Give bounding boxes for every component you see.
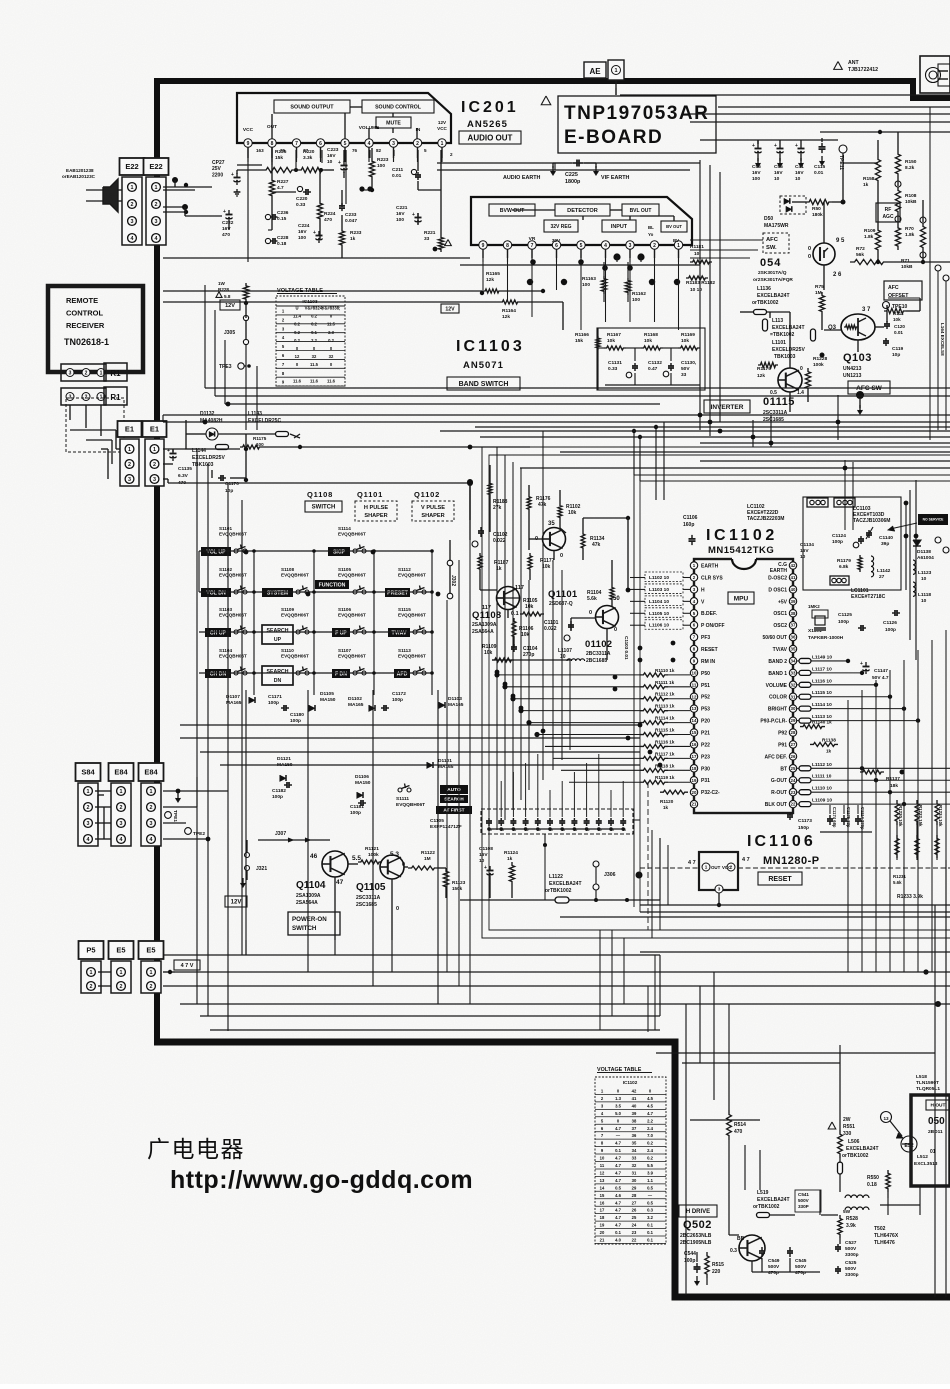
vertical bundle left of IC1102: [496, 447, 498, 830]
R1164 wires: [163, 290, 483, 292]
cap bank: [481, 809, 633, 834]
Q1104: [322, 851, 348, 877]
D50 diodes: [780, 196, 806, 214]
H OUT box: [911, 1095, 950, 1186]
R158: [875, 155, 880, 185]
R233: [339, 228, 344, 248]
Q1105: [380, 855, 404, 879]
R1140: [800, 725, 825, 729]
INVERTER box: [704, 400, 750, 413]
connector R1 row 2: [61, 388, 106, 405]
caps C1174 C1175 C1114: [829, 815, 831, 819]
input box: [602, 220, 636, 232]
J302b: [447, 560, 453, 566]
Q1115: [778, 368, 802, 392]
IC1102 section feeder verticals: [633, 431, 635, 475]
ic201 inner wires: [271, 114, 273, 139]
scan speckle: [0, 0, 1, 1]
wires right top: [700, 139, 838, 141]
R50: [806, 199, 832, 204]
32v reg box: [544, 220, 578, 232]
AFC SW dashed box: [763, 233, 789, 253]
R221: [438, 235, 443, 252]
ic201 pin drops: [247, 147, 249, 162]
detector pin drops: [482, 249, 484, 262]
connector E22 outer: [120, 158, 145, 175]
transistor Q1108: [497, 587, 520, 610]
caps C56 C55 C41: [757, 144, 759, 149]
R1177: [528, 553, 532, 572]
bus wires bottom: [163, 954, 660, 956]
connector E84 outer: [109, 763, 134, 781]
reset box: [758, 872, 802, 885]
connector R1 row 1: [61, 364, 106, 381]
transistor Q1101: [543, 528, 566, 551]
R514: [727, 1110, 732, 1140]
R224: [317, 200, 322, 222]
matrix col verticals down: [245, 840, 247, 955]
AFC SW box: [848, 381, 890, 394]
E84 pin wires: [163, 790, 228, 792]
R109: [875, 226, 880, 254]
remote control receiver box: [48, 286, 143, 372]
board frame outline: [157, 81, 950, 1042]
Q54 FET: [813, 243, 835, 265]
R71 var: [920, 222, 925, 252]
detector box: [555, 204, 610, 216]
bus corner turns: [654, 955, 656, 1030]
wires q1104: [438, 867, 446, 869]
power-on switch box: [288, 912, 340, 935]
detector pins: [479, 241, 487, 249]
connector P5: [79, 941, 104, 959]
shaper wires: [469, 482, 471, 540]
L113: [763, 319, 768, 331]
H DRIVE label: [679, 1205, 717, 1217]
filter wires: [598, 347, 604, 349]
IC1102 body: [694, 559, 793, 813]
title box TNP197053AR E-BOARD: [541, 96, 551, 105]
right side L coils: [799, 658, 811, 663]
IC1102 outer section boxes: [482, 447, 950, 938]
wires audio: [247, 147, 249, 262]
ANT connector TJB1722412: [834, 62, 843, 70]
ic1106 wires: [718, 893, 720, 905]
bus verticals: [659, 955, 661, 1016]
IF detector block outline: [471, 197, 692, 245]
wires E22: [163, 189, 195, 191]
sound output box: [274, 100, 350, 113]
R1102: [558, 503, 562, 520]
H section extra wires: [682, 1062, 729, 1064]
R1134: [581, 531, 585, 551]
12v box2: [225, 896, 247, 907]
transistor Q1102: [596, 606, 619, 629]
12v box: [220, 300, 240, 310]
Q103: [841, 314, 875, 340]
IC201 pins: [244, 139, 252, 147]
bus band y415-475: [163, 414, 950, 416]
dots ic1102 left rows: [494, 672, 499, 677]
wire web around IC1106: [651, 830, 653, 938]
C115 cap: [821, 143, 823, 147]
sound control box: [362, 100, 434, 113]
connector E5 outer: [109, 941, 134, 959]
matrix wires: [199, 550, 432, 552]
LC1103 box: [803, 497, 901, 590]
L1142: [871, 556, 874, 577]
AE connector label: [584, 62, 606, 78]
bvl out box: [622, 204, 659, 216]
R223: [369, 158, 374, 180]
right side long verticals: [847, 700, 849, 972]
R72: [850, 259, 888, 264]
E5 pin wires: [163, 971, 175, 973]
bvw out box: [489, 204, 535, 216]
mid long verticals: [446, 600, 448, 972]
bv out box: [661, 221, 687, 232]
junction dots buses: [203, 420, 208, 425]
TPE11: [839, 145, 847, 153]
right top verticals: [752, 420, 754, 447]
R70: [895, 224, 900, 250]
Q502 transistor: [739, 1235, 765, 1261]
TPE10: [883, 302, 890, 309]
R123x vertical resistors right: [895, 800, 899, 825]
R108 var: [895, 186, 900, 216]
auto search: [440, 785, 468, 794]
connector E1 on frame: [143, 421, 167, 437]
right top horizontals: [690, 94, 950, 96]
IC1102 left pin wires: [497, 674, 640, 676]
R1188: [488, 481, 492, 497]
bus to H section: [685, 1004, 687, 1295]
right side L coils low: [799, 766, 811, 771]
R1138: [810, 742, 838, 746]
cap bank area verticals: [544, 845, 546, 900]
mute box: [376, 117, 411, 128]
IC1106 body: [699, 852, 738, 890]
AFC OFFSET box: [884, 281, 922, 300]
left long verticals: [196, 449, 198, 1004]
R551: [828, 1122, 836, 1129]
R227: [269, 177, 274, 199]
dashed wires R1 to E1: [66, 398, 124, 452]
R150: [895, 150, 900, 178]
L1102-L1106 labels: [645, 572, 683, 582]
ic1102 left bundle down: [599, 930, 601, 1030]
12V box left: [441, 304, 459, 313]
mid wires: [180, 724, 640, 726]
band switch box: [447, 377, 520, 390]
audio out box: [459, 131, 521, 144]
T502 transformer: [845, 1195, 869, 1198]
IC201 audio block outline: [237, 93, 451, 143]
RF AGC box: [876, 203, 900, 222]
connector S84: [76, 763, 101, 781]
filter box: [597, 328, 705, 390]
connector E1 outer: [118, 421, 142, 437]
E1 wires: [163, 448, 240, 450]
bottom right wires: [729, 1062, 840, 1064]
E52 connector: [901, 1136, 917, 1152]
MPU box: [728, 592, 754, 604]
connector E22 on frame: [144, 158, 169, 175]
resonator bottom: [830, 576, 849, 585]
connector E84 on frame: [139, 763, 164, 781]
bus band y385-405: [205, 387, 950, 389]
detector inner wires: [512, 209, 535, 211]
C225 cap: [552, 163, 554, 168]
verticals under detector: [482, 262, 484, 290]
more top right horizontals: [620, 94, 690, 96]
47V box: [174, 960, 200, 970]
right verticals lc: [905, 503, 907, 590]
R1176: [527, 494, 531, 512]
J306: [593, 861, 599, 867]
L1101: [811, 329, 816, 341]
C541: [795, 1190, 821, 1212]
wires S84-E84: [95, 790, 111, 792]
wires R1-E1: [70, 429, 116, 431]
speaker: [103, 179, 118, 212]
R1187: [478, 553, 482, 572]
connector E5 on frame: [139, 941, 164, 959]
resonators top: [807, 498, 828, 507]
NO SERVICE label: [918, 514, 948, 525]
